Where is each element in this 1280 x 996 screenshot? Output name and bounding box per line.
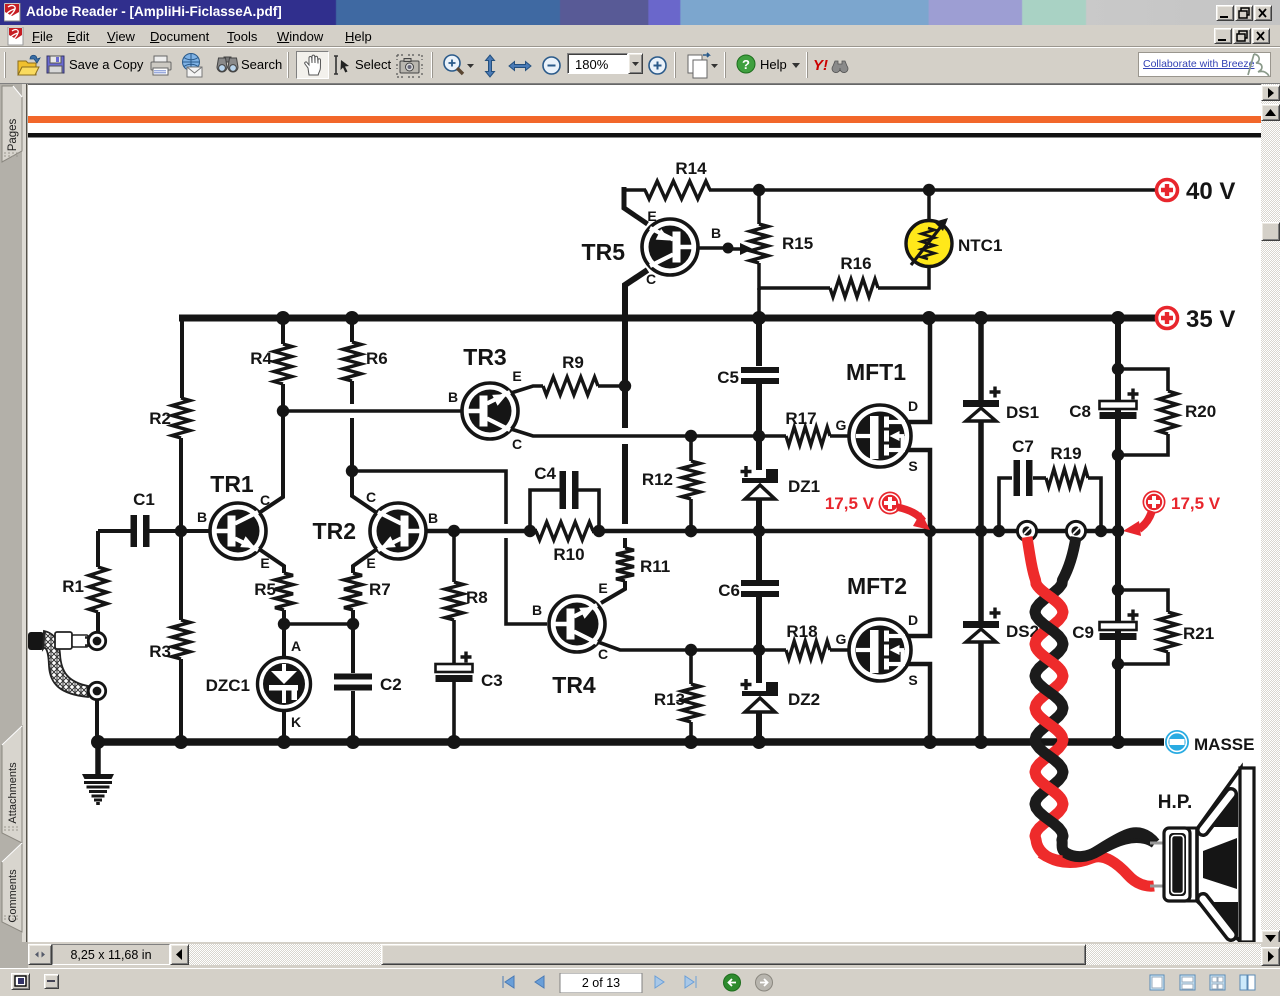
svg-text:40 V: 40 V (1186, 178, 1235, 205)
svg-text:G: G (836, 631, 847, 647)
R10 on mid line (536, 522, 593, 540)
MFT1 drain wire (908, 320, 930, 422)
C7/R19 loop (993, 525, 1005, 537)
DS2 diode (978, 531, 984, 621)
svg-text:G: G (836, 417, 847, 433)
svg-text:TR2: TR2 (313, 518, 356, 544)
DZ1 zener (756, 436, 762, 470)
NTC1 thermistor (927, 190, 931, 221)
svg-text:17,5 V: 17,5 V (825, 494, 875, 513)
final red-over-black crossing (1041, 853, 1062, 861)
C6 (756, 531, 762, 581)
svg-text:Pages: Pages (7, 118, 19, 151)
R11 (623, 538, 627, 548)
R17 (786, 427, 830, 445)
svg-text:R10: R10 (553, 545, 584, 564)
svg-text:R5: R5 (254, 580, 276, 599)
svg-text:R7: R7 (369, 580, 391, 599)
node gate2/DZ2 (753, 644, 765, 656)
TR4 collector wire / gate line 2 (598, 642, 786, 650)
C1 (98, 529, 131, 533)
speaker terminal block (1164, 828, 1190, 901)
bottom ground rail wire (95, 738, 1164, 746)
R18 (786, 641, 830, 659)
svg-text:MFT2: MFT2 (847, 573, 907, 599)
node R5/DZC1 (278, 618, 290, 630)
svg-text:R14: R14 (675, 159, 707, 178)
svg-text:R6: R6 (366, 349, 388, 368)
twisted pair black wire (1035, 537, 1155, 857)
TR1 collector wire (259, 411, 283, 513)
R6 (345, 311, 359, 325)
svg-text:C: C (512, 436, 522, 452)
svg-text:R16: R16 (840, 254, 871, 273)
TR1 (210, 503, 266, 559)
node R4/TR3-B (277, 405, 289, 417)
svg-text:S: S (908, 672, 917, 688)
svg-text:DS1: DS1 (1006, 403, 1039, 422)
node gate2/R13 (685, 644, 697, 656)
svg-text:35 V: 35 V (1186, 306, 1235, 333)
svg-text:C2: C2 (380, 675, 402, 694)
TR5 emitter wire (624, 187, 648, 224)
40V rail wire (624, 188, 646, 192)
svg-text:D: D (908, 398, 918, 414)
MFT2 source wire (908, 664, 930, 742)
svg-text:DZ1: DZ1 (788, 477, 820, 496)
input jack plug (28, 632, 44, 650)
svg-text:K: K (291, 714, 301, 730)
input terminal upper (88, 632, 105, 649)
svg-text:C9: C9 (1072, 623, 1094, 642)
R3 (179, 531, 183, 620)
svg-text:TR1: TR1 (210, 471, 254, 497)
R2 column from 35V rail (180, 315, 184, 398)
DZ2 zener (756, 650, 762, 683)
svg-text:DZC1: DZC1 (206, 676, 250, 695)
svg-text:S: S (908, 458, 917, 474)
svg-text:C8: C8 (1069, 402, 1091, 421)
twist crossings red over black (1035, 582, 1062, 610)
svg-text:C6: C6 (718, 581, 740, 600)
svg-text:?: ? (742, 57, 750, 72)
wire lower terminal to rail (95, 700, 99, 742)
svg-text:C: C (598, 646, 608, 662)
MFT1 (849, 405, 911, 467)
sidebar (0, 84, 28, 967)
R20 loop (1118, 369, 1168, 391)
R15 wiper arrow from TR5 base (698, 246, 730, 250)
svg-text:C5: C5 (717, 368, 739, 387)
svg-text:2 of 13: 2 of 13 (582, 976, 620, 990)
svg-text:C: C (646, 271, 656, 287)
TR2 collector wire (352, 471, 377, 513)
C3 electrolytic (461, 652, 472, 663)
svg-text:R18: R18 (786, 622, 817, 641)
svg-text:DZ2: DZ2 (788, 690, 820, 709)
C4 loop (524, 525, 536, 537)
TR3 (462, 383, 518, 439)
x759 column: R15 down to 35V rail (757, 288, 761, 318)
C9 electrolytic (1128, 610, 1139, 621)
svg-text:MASSE: MASSE (1194, 735, 1254, 754)
svg-text:R19: R19 (1050, 444, 1081, 463)
junction bottom rail x98 (91, 735, 105, 749)
right power column (1111, 311, 1125, 325)
svg-text:B: B (711, 225, 721, 241)
MFT2 drain wire (908, 533, 930, 636)
x759 column: C5 (752, 311, 766, 325)
35V rail wire (179, 315, 1157, 322)
speaker pins (1150, 842, 1166, 845)
TR3 base line (283, 409, 462, 412)
40V terminal (1157, 180, 1178, 201)
black header rule (28, 133, 1261, 138)
DZC1 (282, 624, 286, 660)
node R6/TR2-C (346, 465, 358, 477)
svg-text:R3: R3 (149, 642, 171, 661)
svg-text:B: B (428, 510, 438, 526)
svg-text:C4: C4 (534, 464, 556, 483)
svg-text:R2: R2 (149, 409, 171, 428)
twisted pair red wire (1027, 537, 1154, 886)
R13 (689, 650, 693, 684)
svg-text:R11: R11 (640, 557, 670, 576)
svg-text:R12: R12 (642, 470, 673, 489)
svg-text:TR5: TR5 (582, 239, 626, 265)
node TR1 base junction (175, 525, 187, 537)
svg-text:C: C (366, 489, 376, 505)
Comments tab (0, 842, 25, 936)
TR1 emitter wire + R5 (259, 549, 284, 573)
svg-text:R9: R9 (562, 353, 584, 372)
center pin insulator (55, 632, 72, 649)
R14 (645, 181, 710, 199)
svg-text:R20: R20 (1185, 402, 1216, 421)
output terminal left (1017, 521, 1036, 540)
TR2 (370, 503, 426, 559)
svg-text:C3: C3 (481, 671, 503, 690)
node gate1/DZ1 (753, 430, 765, 442)
TR3 emitter wire + R9 (511, 386, 543, 393)
junction 40V/NTC1 (923, 184, 935, 196)
node R7/C2 (347, 618, 359, 630)
R1 (96, 531, 100, 567)
R2 (172, 398, 190, 438)
svg-text:Comments: Comments (7, 869, 19, 923)
R8 (448, 525, 460, 537)
R15 potentiometer (757, 190, 761, 224)
svg-text:TR3: TR3 (463, 344, 506, 370)
MASSE terminal (1165, 730, 1189, 754)
C8 electrolytic (1128, 389, 1139, 400)
TR2 emitter wire + R7 (353, 549, 377, 573)
junction 40V/R15 (753, 184, 765, 196)
svg-text:B: B (448, 389, 458, 405)
R4 (276, 311, 290, 325)
DS1 diode (974, 311, 988, 325)
output terminal right (1066, 521, 1085, 540)
Attachments tab (0, 725, 25, 847)
input terminal lower (88, 682, 105, 699)
TR3 collector wire / gate line 1 (511, 429, 786, 436)
svg-text:E: E (598, 580, 607, 596)
svg-text:17,5 V: 17,5 V (1171, 494, 1221, 513)
wire TR2C to TR4 base (352, 471, 506, 524)
svg-text:E: E (647, 208, 656, 224)
svg-text:R21: R21 (1183, 624, 1214, 643)
svg-text:MFT1: MFT1 (846, 359, 906, 385)
braided shield (43, 631, 88, 697)
final black-over-red crossing (1094, 833, 1155, 853)
svg-text:C7: C7 (1012, 437, 1034, 456)
mid output line wire (424, 529, 537, 534)
svg-text:E: E (512, 368, 521, 384)
svg-text:NTC1: NTC1 (958, 236, 1002, 255)
tie R5-R7 (284, 622, 353, 625)
svg-text:R17: R17 (785, 409, 816, 428)
35V terminal (1157, 308, 1178, 329)
svg-text:Y!: Y! (813, 57, 828, 74)
node 17.5V right (1112, 525, 1124, 537)
svg-text:Attachments: Attachments (7, 762, 19, 824)
Pages tab (0, 85, 25, 165)
svg-text:B: B (532, 602, 542, 618)
C2 (351, 624, 355, 673)
MFT1 source wire (908, 450, 930, 531)
svg-text:R1: R1 (62, 577, 84, 596)
TR5 (642, 219, 698, 275)
ground symbol (95, 742, 101, 775)
R12 (689, 436, 693, 461)
R16 (759, 286, 830, 290)
svg-text:C1: C1 (133, 490, 155, 509)
svg-text:R4: R4 (250, 349, 272, 368)
svg-text:R15: R15 (782, 234, 813, 253)
svg-text:A: A (291, 638, 301, 654)
node gate1/R12 (685, 430, 697, 442)
node R9/TR5C column (619, 380, 631, 392)
svg-text:TR4: TR4 (552, 672, 596, 698)
TR4 (549, 596, 605, 652)
R21 loop (1118, 590, 1168, 612)
TR5 collector wire to R11 (x=625 column) (625, 270, 648, 428)
svg-text:D: D (908, 612, 918, 628)
orange header bar (28, 116, 1261, 123)
svg-text:R8: R8 (466, 588, 488, 607)
svg-text:B: B (197, 509, 207, 525)
MFT2 (849, 619, 911, 681)
svg-text:R13: R13 (654, 690, 685, 709)
speaker body (1188, 768, 1254, 942)
svg-text:H.P.: H.P. (1158, 792, 1193, 813)
